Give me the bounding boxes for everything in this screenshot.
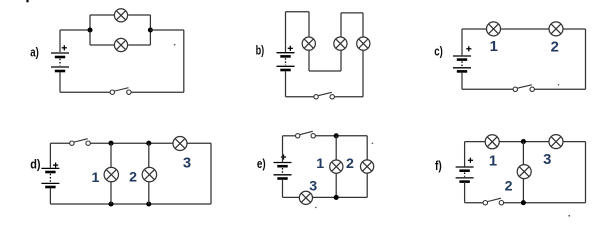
svg-text:1: 1 bbox=[316, 156, 324, 172]
svg-text:1: 1 bbox=[92, 170, 100, 186]
svg-text:b): b) bbox=[256, 43, 265, 58]
svg-text:3: 3 bbox=[309, 179, 317, 195]
svg-text:2: 2 bbox=[346, 156, 354, 172]
svg-text:2: 2 bbox=[551, 39, 559, 55]
svg-text:a): a) bbox=[30, 45, 39, 60]
svg-text:2: 2 bbox=[129, 170, 137, 186]
svg-text:c): c) bbox=[434, 43, 443, 58]
svg-text:2: 2 bbox=[505, 179, 513, 195]
svg-text:1: 1 bbox=[489, 153, 497, 169]
svg-text:d): d) bbox=[30, 157, 40, 172]
svg-text:f): f) bbox=[435, 158, 442, 173]
svg-text:3: 3 bbox=[183, 155, 191, 171]
svg-text:3: 3 bbox=[543, 152, 551, 168]
svg-text:e): e) bbox=[257, 156, 266, 171]
svg-text:1: 1 bbox=[490, 39, 498, 55]
